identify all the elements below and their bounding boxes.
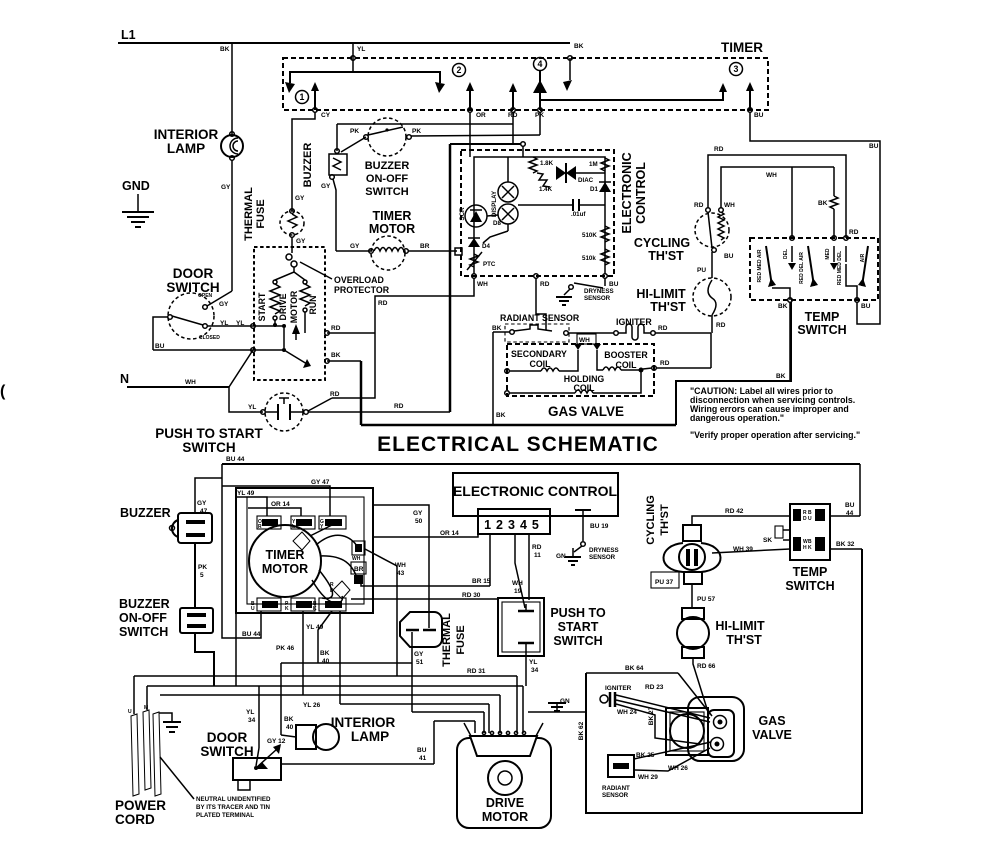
svg-text:11: 11 (534, 552, 541, 559)
svg-text:SWITCH: SWITCH (200, 744, 253, 759)
svg-text:BK 27: BK 27 (648, 706, 655, 725)
svg-text:BR: BR (354, 566, 364, 573)
svg-text:PK: PK (412, 128, 421, 135)
svg-text:SWITCH: SWITCH (785, 579, 834, 593)
timer contact 3 (730, 63, 743, 76)
gas valve assembly (lower) (666, 697, 792, 761)
ground GND (122, 179, 154, 227)
svg-text:MOTOR: MOTOR (262, 562, 308, 576)
svg-text:RD: RD (660, 360, 670, 367)
diode D4 (468, 238, 480, 247)
svg-text:MOTOR: MOTOR (289, 290, 299, 323)
wire BU 44 right (830, 515, 860, 517)
PTC (470, 254, 478, 267)
svg-text:RD: RD (658, 325, 668, 332)
svg-text:DRIVE: DRIVE (278, 293, 288, 320)
resistor 1M (601, 158, 609, 171)
svg-text:CORD: CORD (115, 812, 155, 827)
svg-text:BU 19: BU 19 (590, 523, 609, 530)
svg-text:YL: YL (246, 709, 254, 716)
svg-text:SWITCH: SWITCH (182, 440, 235, 455)
wire BR 15 (361, 534, 491, 586)
svg-text:PU: PU (697, 267, 706, 274)
svg-text:CY: CY (321, 112, 331, 119)
svg-text:TEMP: TEMP (805, 310, 840, 324)
wire to overload (291, 237, 293, 253)
svg-text:BK: BK (220, 46, 230, 53)
svg-text:D8: D8 (493, 220, 501, 227)
svg-text:TH'ST: TH'ST (650, 300, 686, 314)
wire bus 721 (434, 720, 475, 722)
svg-text:BU: BU (861, 303, 871, 310)
svg-text:RD: RD (694, 202, 704, 209)
svg-text:OPEN: OPEN (198, 293, 213, 299)
curvy wires (316, 535, 357, 546)
wire WH feed row (right) (721, 167, 838, 238)
wire CY from timer to thermal fuse (292, 112, 315, 211)
svg-text:COIL: COIL (615, 360, 637, 370)
power cord (115, 676, 271, 827)
svg-text:INTERIOR: INTERIOR (331, 715, 396, 730)
svg-text:SCR: SCR (459, 207, 466, 221)
wire neutral riser to push-to-start (229, 350, 253, 387)
svg-text:RD 23: RD 23 (645, 684, 664, 691)
cycling thermostat (lower) (645, 495, 790, 608)
drive motor (top schematic, dashed box) (254, 247, 325, 380)
svg-text:GAS: GAS (758, 714, 785, 728)
svg-text:1M: 1M (589, 161, 598, 168)
svg-text:50: 50 (415, 518, 423, 525)
wire lamp net 663 (281, 662, 412, 664)
dryness sensor (top) (556, 278, 614, 305)
wire RD 31 bus (134, 675, 517, 677)
svg-text:ELECTRONIC: ELECTRONIC (620, 152, 634, 233)
resistor 1.4K (537, 173, 550, 187)
igniter (lower) (600, 684, 710, 744)
wire bus 695 (160, 694, 500, 696)
svg-text:GY: GY (350, 243, 360, 250)
bottom nodes (472, 274, 477, 279)
svg-text:H: H (803, 545, 807, 551)
svg-text:MOTOR: MOTOR (369, 222, 415, 236)
wire bus 704 (340, 703, 489, 705)
svg-text:WH 39: WH 39 (733, 546, 753, 553)
svg-text:PUSH TO: PUSH TO (550, 606, 606, 620)
wire RD feed row (right) (708, 146, 859, 238)
svg-text:U: U (128, 709, 132, 715)
svg-text:THERMAL: THERMAL (243, 187, 255, 241)
svg-text:D1: D1 (590, 186, 598, 193)
svg-text:YL 49: YL 49 (306, 624, 324, 631)
buses (lower) (134, 613, 523, 721)
svg-text:WH: WH (185, 379, 196, 386)
svg-text:GY 47: GY 47 (311, 479, 330, 486)
overload protector (300, 262, 390, 295)
wire BK 25 (634, 742, 711, 759)
svg-text:BU 44: BU 44 (242, 631, 261, 638)
svg-text:SWITCH: SWITCH (119, 625, 168, 639)
internal rails (474, 157, 605, 274)
svg-text:BU 44: BU 44 (226, 456, 245, 463)
caution note (690, 386, 860, 440)
svg-text:HI-LIMIT: HI-LIMIT (636, 287, 686, 301)
svg-text:RED DEL AIR: RED DEL AIR (799, 252, 805, 284)
svg-text:FUSE: FUSE (455, 625, 467, 654)
wire BK drop to interior lamp (231, 43, 233, 135)
svg-text:RD 31: RD 31 (467, 668, 486, 675)
svg-text:YL: YL (248, 404, 256, 411)
booster coil (597, 350, 603, 370)
svg-text:YL 49: YL 49 (237, 490, 255, 497)
svg-text:BUZZER: BUZZER (365, 160, 410, 172)
wire RD motor run to riser (327, 332, 375, 334)
wire RD push-start to main riser (308, 411, 450, 413)
cam 1 (293, 532, 310, 550)
svg-text:WH: WH (766, 172, 777, 179)
door switch (lower) (200, 686, 285, 790)
drive motor (lower) (457, 676, 586, 828)
svg-text:LAMP: LAMP (167, 141, 205, 156)
svg-text:GY: GY (219, 301, 229, 308)
push to start switch (155, 278, 474, 455)
svg-text:BK 32: BK 32 (836, 541, 855, 548)
cam 2 (333, 581, 350, 599)
wire RD from timer to control entry node (450, 112, 525, 157)
svg-text:5: 5 (200, 572, 204, 579)
gas valve (top, dashed box) (505, 333, 711, 419)
svg-text:BK: BK (496, 412, 506, 419)
svg-text:ON-OFF: ON-OFF (119, 611, 167, 625)
svg-text:PTC: PTC (483, 261, 496, 268)
svg-text:GY: GY (414, 651, 424, 658)
run winding (303, 280, 307, 284)
svg-text:4: 4 (538, 59, 543, 69)
svg-text:PLATED TERMINAL: PLATED TERMINAL (196, 812, 254, 819)
svg-text:YL 26: YL 26 (303, 702, 321, 709)
bottom terminal blocks (257, 598, 281, 611)
buzzer on-off switch (350, 118, 421, 198)
svg-text:GY: GY (197, 500, 207, 507)
svg-text:MOTOR: MOTOR (482, 810, 528, 824)
svg-text:PK: PK (198, 564, 207, 571)
WH tag (577, 334, 596, 344)
svg-text:HI-LIMIT: HI-LIMIT (715, 619, 765, 633)
svg-text:POWER: POWER (115, 798, 166, 813)
svg-text:RD: RD (716, 322, 726, 329)
svg-text:RD: RD (849, 229, 859, 236)
svg-text:1.8K: 1.8K (540, 160, 554, 167)
svg-text:OR: OR (476, 112, 486, 119)
svg-text:U: U (808, 516, 812, 522)
svg-text:RADIANT SENSOR: RADIANT SENSOR (500, 313, 580, 323)
svg-text:RED MED DEL: RED MED DEL (837, 251, 843, 285)
svg-text:TH'ST: TH'ST (659, 504, 671, 536)
timer motor circle (249, 525, 321, 597)
svg-text:BU: BU (609, 281, 619, 288)
svg-text:510K: 510K (582, 232, 597, 239)
svg-text:R: R (258, 524, 262, 530)
secondary coil (505, 369, 510, 374)
wire RD 42 (692, 516, 790, 525)
wire BU 44 timer drop (242, 631, 261, 638)
svg-text:INTERIOR: INTERIOR (154, 127, 219, 142)
electronic control (dashed box) (459, 150, 648, 288)
svg-text:34: 34 (531, 667, 539, 674)
svg-text:BUZZER: BUZZER (119, 597, 170, 611)
bottom junctions (772, 288, 790, 300)
svg-text:WH: WH (512, 580, 523, 587)
svg-text:BK: BK (284, 716, 294, 723)
svg-text:BUZZER: BUZZER (120, 506, 171, 520)
svg-text:PUSH TO START: PUSH TO START (155, 426, 263, 441)
timer motor (336, 209, 462, 270)
svg-text:DOOR: DOOR (207, 730, 248, 745)
wire BK 32 (830, 548, 862, 550)
svg-text:U: U (251, 606, 255, 612)
buzzer (lower) (120, 478, 222, 608)
svg-text:TIMER: TIMER (266, 548, 305, 562)
wire RD 66 (693, 658, 708, 712)
wire L1 horizontal (118, 42, 570, 44)
wire PK from timer to buzzer on-off switch (539, 112, 541, 135)
door switch (153, 266, 284, 352)
svg-text:D: D (803, 516, 807, 522)
timer contact RD blade (509, 83, 517, 92)
svg-text:BR 15: BR 15 (472, 578, 491, 585)
svg-text:2: 2 (457, 65, 462, 75)
svg-text:34: 34 (248, 717, 256, 724)
svg-text:VALVE: VALVE (752, 728, 792, 742)
svg-text:44: 44 (846, 510, 854, 517)
svg-text:START: START (257, 292, 267, 321)
svg-text:BU: BU (869, 143, 879, 150)
svg-text:GY: GY (221, 184, 231, 191)
svg-text:BK 62: BK 62 (578, 721, 585, 740)
wire BU 41 (281, 763, 434, 765)
svg-text:RD: RD (540, 281, 550, 288)
temp switch (lower) (586, 464, 862, 813)
svg-text:OR 14: OR 14 (440, 530, 459, 537)
thermal fuse (lower) (400, 612, 467, 712)
svg-text:NEUTRAL UNIDENTIFIED: NEUTRAL UNIDENTIFIED (196, 796, 271, 803)
timer contact 4 (534, 58, 547, 71)
svg-text:SECONDARY: SECONDARY (511, 349, 567, 359)
thermal fuse (243, 187, 306, 272)
svg-text:START: START (558, 620, 599, 634)
svg-text:DRYNESS: DRYNESS (584, 288, 614, 295)
svg-text:1.4K: 1.4K (539, 186, 553, 193)
svg-text:BU: BU (417, 747, 427, 754)
svg-text:D4: D4 (482, 243, 490, 250)
wire YL 34 bus (147, 685, 523, 687)
svg-text:N: N (120, 372, 129, 386)
svg-text:K: K (313, 606, 317, 612)
svg-text:WH: WH (352, 556, 361, 562)
svg-text:SWITCH: SWITCH (553, 634, 602, 648)
wire WH 39 (712, 549, 790, 553)
svg-text:SWITCH: SWITCH (797, 323, 846, 337)
svg-text:DOOR: DOOR (173, 266, 214, 281)
svg-text:BK 25: BK 25 (636, 752, 655, 759)
wire bus 712 (412, 711, 484, 713)
svg-text:RD: RD (532, 544, 542, 551)
svg-text:YL: YL (529, 659, 537, 666)
svg-text:IGNITER: IGNITER (605, 685, 632, 692)
svg-text:TEMP: TEMP (793, 565, 828, 579)
svg-text:ELECTRICAL SCHEMATIC: ELECTRICAL SCHEMATIC (377, 433, 659, 456)
capacitor .01uf (518, 204, 573, 206)
display tubes (498, 182, 518, 202)
svg-text:SENSOR: SENSOR (589, 554, 616, 561)
svg-text:43: 43 (397, 570, 405, 577)
wire BU 19 / dryness sensor (lower) (575, 509, 591, 511)
svg-text:DEL: DEL (783, 249, 789, 259)
wire buzzer to timer motor line (333, 179, 336, 251)
diode D1 (599, 182, 611, 192)
svg-text:DISPLAY: DISPLAY (491, 190, 498, 217)
svg-text:RD: RD (378, 300, 388, 307)
svg-text:WH: WH (477, 281, 488, 288)
switch blades (766, 246, 772, 286)
svg-text:RD 66: RD 66 (697, 663, 716, 670)
svg-text:BK: BK (320, 650, 330, 657)
svg-text:CYCLING: CYCLING (645, 495, 657, 545)
svg-text:RED MED AIR: RED MED AIR (757, 249, 763, 282)
svg-text:RD: RD (330, 391, 340, 398)
timer contact 1 (285, 82, 295, 93)
svg-text:12345: 12345 (484, 518, 544, 532)
svg-text:BY ITS TRACER AND TIN: BY ITS TRACER AND TIN (196, 804, 270, 811)
neutral note (160, 757, 194, 799)
svg-text:GND: GND (122, 179, 150, 193)
svg-text:CYCLING: CYCLING (634, 236, 690, 250)
svg-text:BK: BK (331, 352, 341, 359)
svg-text:.01uf: .01uf (571, 211, 586, 218)
wire WH 29 (634, 748, 710, 771)
svg-text:3: 3 (734, 64, 739, 74)
wire BK entry (568, 56, 573, 61)
wire PK 5 (194, 543, 196, 608)
svg-text:19: 19 (514, 588, 522, 595)
svg-text:GY: GY (295, 195, 305, 202)
hi-limit thermostat (top) (636, 278, 731, 333)
svg-text:BOOSTER: BOOSTER (604, 350, 648, 360)
interior lamp (154, 127, 243, 291)
node N (neutral) (120, 350, 263, 412)
wire BU44 top bus (222, 456, 860, 638)
svg-text:YL: YL (357, 46, 365, 53)
wire RD branch to buzzer (337, 124, 513, 151)
svg-text:AIR: AIR (860, 253, 866, 262)
wire WH 43 timer to bus (365, 549, 406, 676)
igniter (top) (568, 317, 711, 340)
top terminal blocks (257, 516, 281, 529)
svg-text:BK: BK (778, 303, 788, 310)
svg-text:WH: WH (724, 202, 735, 209)
svg-text:TIMER: TIMER (373, 209, 412, 223)
wire YL entry (352, 43, 354, 72)
resistor BK branch (833, 167, 835, 196)
wire GY 51 (411, 632, 413, 712)
svg-text:RD: RD (394, 403, 404, 410)
svg-text:BK: BK (818, 200, 828, 207)
wire BK 40 timer drop (320, 611, 340, 704)
svg-text:WH 26: WH 26 (668, 765, 688, 772)
svg-text:PU 37: PU 37 (655, 579, 673, 586)
svg-text:(: ( (0, 383, 6, 400)
svg-text:RD 42: RD 42 (725, 508, 744, 515)
wire timer 4-3 link (540, 90, 723, 100)
svg-text:DIAC: DIAC (578, 177, 594, 184)
buzzer (302, 137, 366, 251)
wire OR from timer into electronic control (469, 112, 471, 157)
svg-text:GY: GY (321, 183, 331, 190)
wire buzzer to on-off switch (341, 137, 366, 152)
svg-text:RD 30: RD 30 (462, 592, 481, 599)
svg-text:51: 51 (416, 659, 424, 666)
svg-text:IGNITER: IGNITER (616, 317, 652, 327)
SCR (465, 205, 487, 227)
wire BU from timer to temp switch (750, 112, 880, 324)
timer (lower) (222, 479, 373, 613)
svg-text:40: 40 (322, 658, 330, 665)
svg-text:BR: BR (420, 243, 430, 250)
svg-text:LAMP: LAMP (351, 729, 389, 744)
svg-text:WH: WH (579, 337, 590, 344)
motor ground (528, 711, 586, 713)
svg-text:K: K (808, 545, 812, 551)
svg-text:BU: BU (845, 502, 855, 509)
wire OR 14 to control (373, 530, 478, 537)
svg-text:ELECTRONIC CONTROL: ELECTRONIC CONTROL (453, 483, 618, 499)
svg-text:41: 41 (419, 755, 427, 762)
svg-text:SENSOR: SENSOR (584, 295, 611, 302)
svg-text:WH 29: WH 29 (638, 774, 658, 781)
svg-text:WH 24: WH 24 (617, 709, 637, 716)
svg-text:RD: RD (714, 146, 724, 153)
interior lamp (lower) (281, 663, 434, 764)
svg-text:BUZZER: BUZZER (302, 143, 314, 188)
cycling thermostat (top) (634, 202, 735, 278)
wire GY lamp to door switch (231, 160, 233, 291)
svg-text:PK: PK (350, 128, 359, 135)
feed wires (236, 497, 267, 516)
svg-text:CLOSED: CLOSED (199, 335, 220, 341)
svg-text:BK: BK (492, 325, 502, 332)
svg-text:RUN: RUN (308, 295, 318, 314)
svg-text:GY: GY (296, 238, 306, 245)
svg-text:GAS VALVE: GAS VALVE (548, 404, 624, 419)
svg-text:RD: RD (331, 325, 341, 332)
svg-text:1: 1 (300, 92, 305, 102)
svg-text:PROTECTOR: PROTECTOR (334, 285, 390, 295)
wire BU (153, 349, 284, 351)
wire RD to control circuit (308, 398, 332, 411)
timer contact 2 (435, 82, 445, 93)
wire timer internal top rail (290, 72, 440, 83)
svg-text:"Verify proper operation after: "Verify proper operation after servicing… (690, 430, 860, 440)
svg-text:BK: BK (574, 43, 584, 50)
right terminal squares (352, 541, 365, 555)
wire fork from overload to windings (275, 272, 305, 280)
svg-text:dangerous operation.": dangerous operation." (690, 413, 784, 423)
resistor 510k (601, 249, 609, 265)
svg-text:GN: GN (556, 553, 566, 560)
svg-text:BK: BK (776, 373, 786, 380)
wire common to BU line (153, 317, 168, 350)
resistor 510K (601, 226, 609, 242)
svg-text:TH'ST: TH'ST (648, 249, 684, 263)
